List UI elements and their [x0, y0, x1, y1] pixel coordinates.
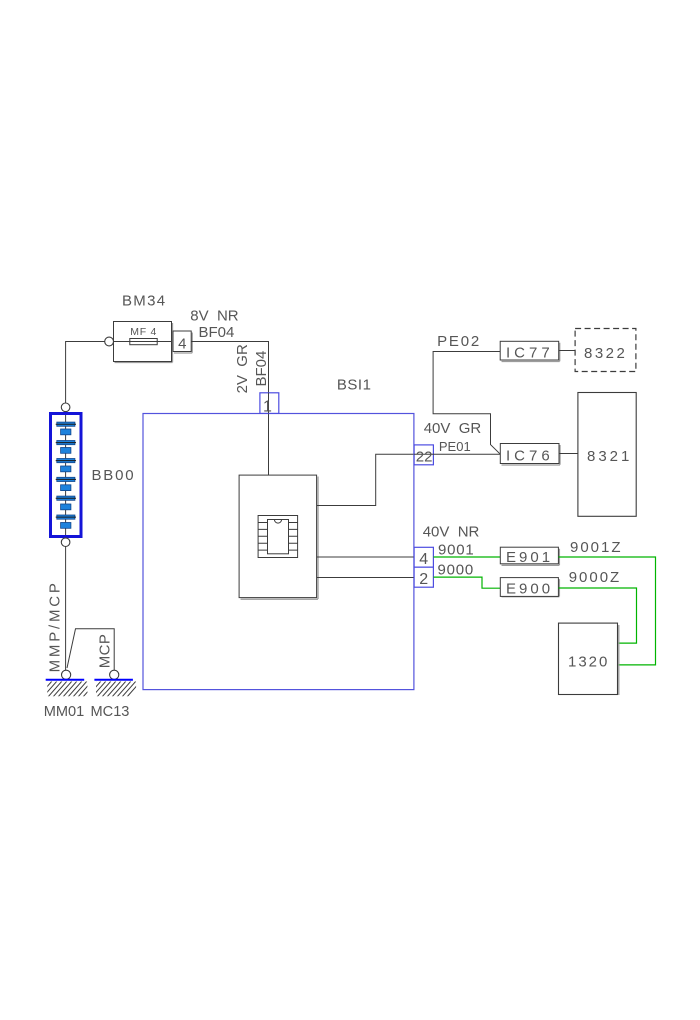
- svg-text:IC77: IC77: [506, 344, 554, 361]
- battery long plate lines: [56, 424, 76, 517]
- svg-text:BB00: BB00: [92, 467, 136, 484]
- pin 22 of BSI1: [414, 445, 433, 466]
- svg-text:IC76: IC76: [506, 448, 554, 465]
- component 8322 (dashed): [575, 329, 636, 372]
- connector IC76: [500, 444, 560, 466]
- svg-text:2: 2: [419, 571, 428, 588]
- ground node circle MM01: [62, 670, 71, 679]
- component 1320: [559, 623, 619, 695]
- svg-text:PE01: PE01: [439, 439, 471, 454]
- svg-text:BF04: BF04: [253, 351, 270, 387]
- wire branch to ground MC13: [67, 629, 114, 670]
- wire E900 to 1320 (green): [558, 588, 636, 643]
- svg-text:MF 4: MF 4: [130, 326, 157, 338]
- pin 4 of BM34: [173, 331, 192, 353]
- svg-text:9001Z: 9001Z: [570, 539, 623, 556]
- connector IC77: [500, 341, 560, 361]
- svg-text:BM34: BM34: [122, 292, 166, 309]
- svg-text:BF04: BF04: [199, 324, 235, 341]
- svg-text:8322: 8322: [584, 345, 627, 362]
- svg-text:22: 22: [416, 449, 433, 466]
- node circle fuse input: [105, 337, 114, 346]
- splice E901: [500, 547, 559, 566]
- component 8321: [578, 393, 636, 517]
- fuse element MF4: [130, 339, 157, 345]
- svg-text:MMP/MCP: MMP/MCP: [47, 580, 64, 672]
- pin 1 of BSI1: [260, 393, 279, 416]
- wire pin2 to E900 (green): [433, 577, 500, 588]
- svg-text:8321: 8321: [587, 448, 632, 465]
- fuse box BM34: [114, 322, 173, 363]
- wire IC77 to 8322: [559, 350, 575, 352]
- svg-text:MM01: MM01: [44, 704, 85, 720]
- svg-text:1320: 1320: [568, 654, 609, 671]
- node circle battery top: [61, 403, 70, 412]
- ground MC13: [82, 680, 142, 698]
- svg-text:E900: E900: [506, 581, 553, 598]
- wire pin22 to IC76: [433, 453, 500, 455]
- chip U1 outer frame: [258, 516, 298, 558]
- chip U1 notch: [274, 520, 281, 524]
- ground node circle MC13: [110, 670, 119, 679]
- svg-text:8V NR: 8V NR: [190, 308, 239, 325]
- svg-text:40V NR: 40V NR: [423, 524, 480, 541]
- wire PE02 to IC77: [433, 352, 500, 455]
- svg-text:BSI1: BSI1: [337, 377, 372, 394]
- svg-text:4: 4: [419, 551, 428, 568]
- wire IC76 to 8321: [559, 453, 578, 455]
- battery center wire: [65, 412, 67, 538]
- svg-text:PE02: PE02: [437, 333, 481, 350]
- svg-text:9001: 9001: [438, 541, 475, 558]
- node circle battery bottom: [61, 538, 70, 547]
- wire battery to ground MM01: [65, 547, 67, 671]
- wire battery top to fuse: [66, 342, 105, 404]
- inner unit box of BSI1: [239, 475, 318, 599]
- pin 2 of BSI1: [414, 567, 433, 588]
- svg-text:9000: 9000: [438, 562, 475, 579]
- svg-text:2V GR: 2V GR: [234, 344, 251, 393]
- svg-text:MC13: MC13: [91, 704, 130, 720]
- wire chip to pin 2: [317, 577, 415, 579]
- wire E901 to 1320 (green): [558, 557, 655, 665]
- BSI1 box: [143, 414, 414, 690]
- battery plates: [57, 422, 75, 528]
- wire pin4 to E901 (green): [433, 556, 500, 558]
- splice E900: [500, 578, 559, 598]
- svg-text:E901: E901: [506, 549, 553, 566]
- battery BB00: [51, 403, 82, 547]
- svg-text:1: 1: [263, 399, 272, 416]
- wire chip to pin 4: [317, 556, 415, 558]
- wire chip to pin 22: [317, 454, 415, 505]
- wire through fuse box: [114, 341, 172, 343]
- svg-text:MCP: MCP: [97, 634, 114, 669]
- wire fuse to BSI1 pin 1: [191, 342, 268, 476]
- svg-text:40V GR: 40V GR: [424, 420, 482, 437]
- battery case: [51, 414, 82, 537]
- chip U1 pins left: [258, 523, 267, 551]
- svg-text:4: 4: [178, 335, 186, 352]
- chip U1 pins right: [289, 523, 298, 551]
- ground MM01: [33, 680, 98, 698]
- svg-text:9000Z: 9000Z: [569, 569, 622, 586]
- pin 4 of BSI1: [414, 547, 433, 568]
- chip U1 body: [268, 520, 289, 554]
